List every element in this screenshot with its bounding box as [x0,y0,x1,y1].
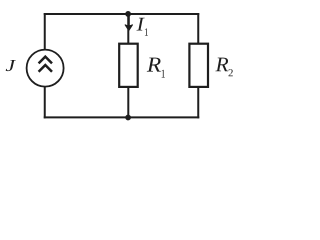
wire left upper [44,13,46,50]
current arrow I1 shaft [127,15,129,27]
resistor R2 body [189,44,208,87]
wire left lower [44,86,46,118]
wire right lower (R2 bottom lead) [197,86,199,118]
label R1 subscript 1 [162,70,165,78]
current source J circle [27,50,64,87]
label R2 subscript 2 [229,69,233,76]
wire right upper (R2 top lead) [197,13,199,44]
current arrow I1 head [125,25,133,31]
node junction dot bottom [125,115,131,121]
wire R1 bottom lead [127,87,129,117]
label R2 letter R [215,58,228,72]
current source chevron upper [39,57,52,64]
label R1 letter R [147,58,161,72]
label I1 letter I [136,18,144,31]
current source chevron lower [39,65,52,72]
resistor R1 body [119,44,138,87]
node junction dot top [125,11,131,17]
wire R1 top lead [127,14,129,44]
wire bottom [44,116,200,118]
label I1 subscript 1 [145,28,148,35]
label J [6,60,16,71]
wire top [44,13,200,15]
